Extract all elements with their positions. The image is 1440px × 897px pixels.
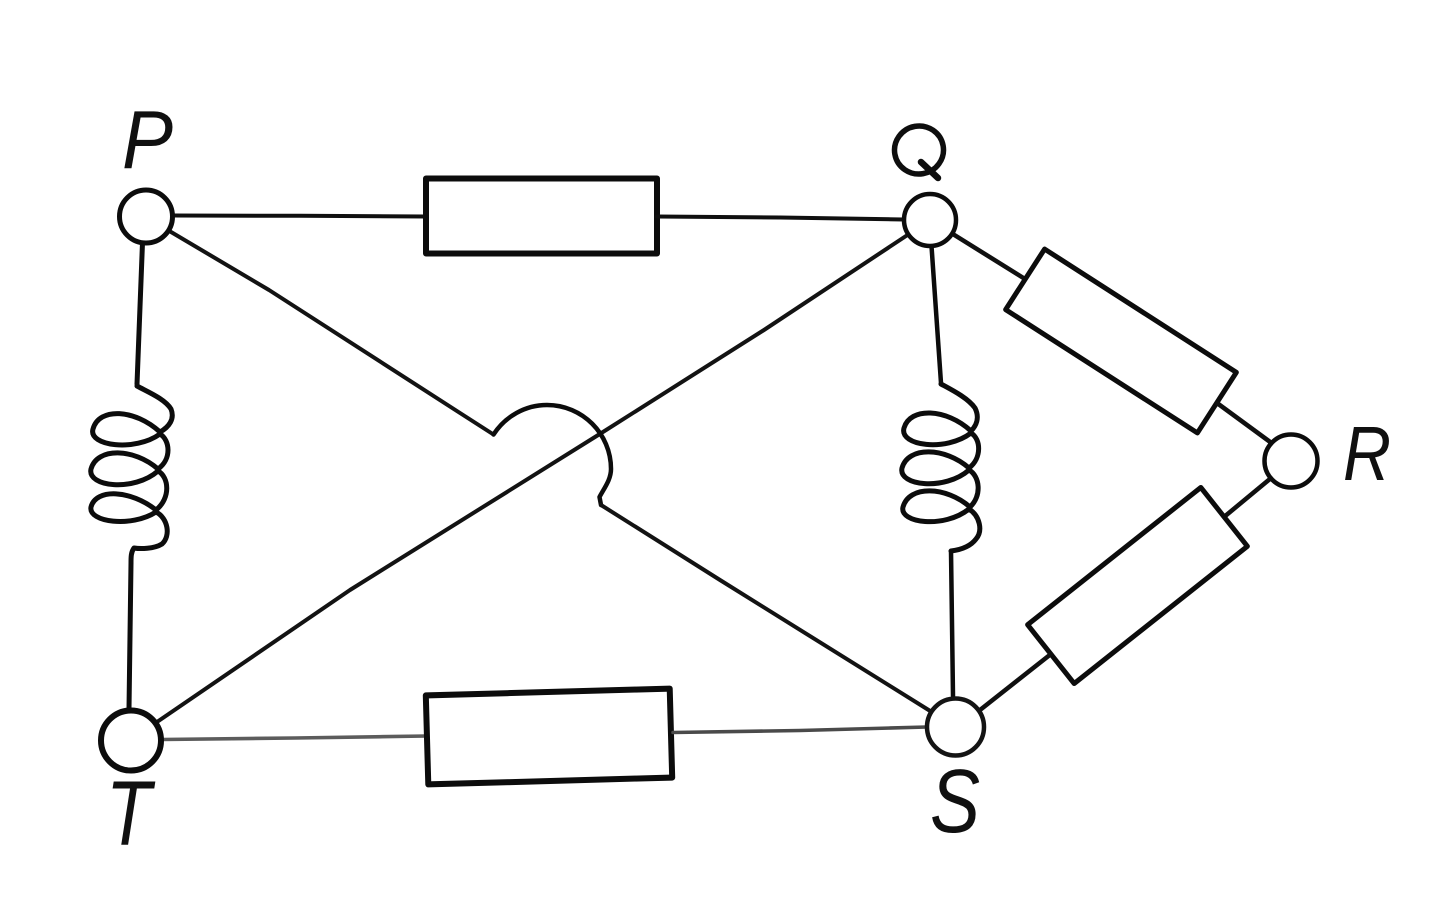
- svg-text:R: R: [1343, 411, 1391, 497]
- wire R to lower-right resistor: [1224, 479, 1271, 518]
- node R: [1265, 435, 1318, 488]
- wire Q to upper-right resistor: [952, 234, 1025, 280]
- wire diagonal P to S (lower segment): [601, 505, 931, 712]
- wire top resistor to Q: [657, 217, 904, 220]
- resistor between S and R: [1028, 487, 1248, 683]
- wire bottom resistor to S: [673, 727, 927, 733]
- wire Q to right inductor: [932, 246, 942, 383]
- wire P to left inductor: [137, 243, 143, 385]
- svg-text:S: S: [930, 752, 980, 852]
- wire left inductor to T: [129, 563, 131, 709]
- node P: [120, 190, 173, 243]
- svg-text:T: T: [106, 763, 156, 865]
- inductor between Q and S: [902, 384, 980, 551]
- wire P to top resistor: [173, 216, 426, 217]
- wire T to bottom resistor: [162, 736, 427, 740]
- node S: [927, 699, 984, 756]
- wire diagonal P to S (upper segment): [169, 231, 494, 435]
- resistor between Q and R: [1006, 249, 1237, 433]
- resistor between P and Q: [426, 179, 657, 254]
- wire lower-right resistor to S: [980, 654, 1051, 710]
- node Q: [904, 194, 956, 246]
- node T: [101, 711, 161, 771]
- svg-text:P: P: [122, 93, 173, 186]
- resistor between T and S: [426, 689, 672, 785]
- label Q: [891, 122, 948, 178]
- wire upper-right resistor to R: [1217, 403, 1270, 442]
- wire diagonal T to Q: [156, 235, 908, 723]
- wire hop (crossover jump) on P-S wire: [494, 405, 612, 505]
- wire right inductor to S: [951, 551, 953, 696]
- inductor between P and T: [91, 386, 173, 563]
